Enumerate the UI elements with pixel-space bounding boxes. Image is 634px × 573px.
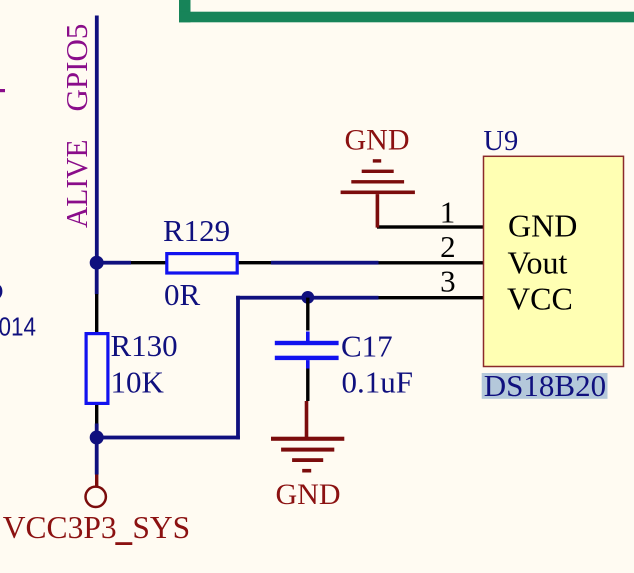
svg-text:2: 2 (440, 229, 456, 264)
wire: junction down to R130 pin 1 (95, 262, 99, 294)
power port GND (bottom) (271, 401, 344, 473)
resistor R129 body (167, 254, 237, 273)
node C: junction at R130 bottom (90, 431, 104, 445)
node B: junction at C17 top (301, 291, 314, 304)
wire: R129 to U9 pin 2 (271, 261, 379, 265)
wire: net ALIVE GPIO5 vertical (95, 16, 99, 263)
svg-text:VCC3P3_SYS: VCC3P3_SYS (3, 510, 190, 545)
svg-text:U9: U9 (483, 126, 518, 157)
power port VCC3P3_SYS stem (95, 475, 98, 487)
resistor R129 pin 1 lead (131, 261, 166, 264)
svg-text:014: 014 (0, 314, 36, 342)
svg-text:GND: GND (508, 207, 577, 243)
wire: junction to R129 pin 1 (97, 261, 131, 265)
svg-text:GND: GND (345, 124, 410, 157)
IC U9 body (DS18B20 temperature sensor) (484, 156, 624, 366)
label DS18B20 highlight (482, 373, 608, 399)
wire: R130 junction to C17/pin3 net (horizontal) (97, 436, 240, 440)
svg-text:DS18B20: DS18B20 (484, 368, 606, 403)
svg-text:Vout: Vout (508, 245, 568, 281)
capacitor C17 top stub (306, 332, 310, 342)
svg-text:GPIO5: GPIO5 (59, 24, 94, 112)
wire: R130 pin 2 to junction (95, 424, 99, 438)
resistor R129 pin 2 lead (239, 261, 271, 264)
svg-text:1: 1 (440, 194, 456, 229)
svg-text:0R: 0R (164, 277, 201, 312)
svg-text:10K: 10K (111, 365, 165, 400)
svg-text:VCC: VCC (507, 280, 573, 316)
node A: junction at R129/R130 (90, 256, 104, 270)
fragment: cut-off navy glyph at left edge (0, 284, 2, 298)
U9 pin 3 lead (379, 296, 484, 299)
svg-text:ALIVE: ALIVE (59, 140, 94, 229)
svg-text:3: 3 (440, 263, 456, 298)
resistor R130 pin 1 lead (95, 294, 98, 333)
svg-text:R129: R129 (163, 213, 230, 248)
svg-text:GND: GND (276, 478, 341, 511)
capacitor C17 bottom stub (306, 360, 310, 368)
svg-text:0.1uF: 0.1uF (342, 364, 414, 399)
U9 pin 1 lead (377, 225, 484, 228)
wire: vertical riser to pin 3 line (236, 296, 240, 440)
capacitor C17 bottom lead (306, 369, 309, 402)
power port GND (top) (341, 159, 415, 227)
capacitor C17 top lead (306, 298, 309, 331)
svg-text:R130: R130 (111, 328, 178, 363)
capacitor C17 plates (275, 341, 339, 360)
U9 pin 2 lead (379, 261, 484, 264)
wire: pin 3 horizontal (236, 296, 378, 300)
power port VCC3P3_SYS circle (86, 487, 106, 507)
sheet border (green frame corner) (179, 0, 634, 22)
fragment: purple tick at left edge (0, 89, 5, 92)
resistor R130 pin 2 lead (95, 405, 98, 424)
resistor R130 body (86, 334, 108, 404)
wire: junction down to power port (95, 438, 99, 475)
svg-text:C17: C17 (341, 329, 393, 364)
